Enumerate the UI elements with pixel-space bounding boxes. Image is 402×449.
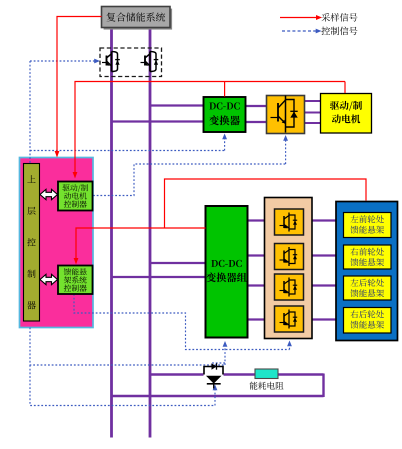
suspension unit box 1 <box>344 213 392 238</box>
storage switch enclosure (dashed box) <box>100 48 162 77</box>
sampling line: row1 converter & motor to motor controller (red) <box>75 82 345 173</box>
wire: brake chopper top rail <box>150 373 204 375</box>
wire: right bus to DC-DC converter (row1 upper) <box>150 104 204 106</box>
wire: right DC bus (vertical) <box>149 28 152 438</box>
IGBT module M3 <box>275 274 304 300</box>
label: 左后轮处 suspension line1 <box>351 279 384 287</box>
DC-DC converter group box (row 2) <box>206 206 248 338</box>
wire: DC-DC converter group to IGBT module group (4 links) <box>248 219 265 221</box>
wire: DC-DC converter to IGBT module U1 (2 links) <box>246 105 267 107</box>
IGBT switch Q1 (left storage branch) <box>102 52 120 72</box>
regen suspension system controller box <box>58 266 93 295</box>
bidirectional link: upper controller to suspension controller <box>40 274 58 284</box>
dump resistor box (cyan) <box>255 369 278 379</box>
sampling tap: DC-DC converter row1 top <box>224 82 226 97</box>
legend: control signal (blue dashed arrow) <box>282 30 316 32</box>
label: 右前轮处 suspension line1 <box>351 248 384 256</box>
control line: upper controller to brake chopper gate (dashed, arrow up) <box>30 365 215 406</box>
wire: dump loop right side <box>322 374 324 398</box>
suspension container box (blue) <box>336 202 398 341</box>
control line: upper controller trunk vertical <box>29 61 31 164</box>
wire: right bus to DC-DC converter group (upper) <box>150 262 206 264</box>
label: drive/brake motor <box>330 101 362 111</box>
sampling tap: drive/brake motor top <box>344 82 346 94</box>
suspension unit box 4 <box>344 308 392 334</box>
suspension unit box 3 <box>344 276 392 300</box>
control line: to DC-DC converter row1 (dashed, arrow up) <box>30 139 225 151</box>
IGBT module M2 <box>275 244 304 270</box>
control line: upper controller to DC-DC converter group (dashed, arrow up) <box>30 328 225 366</box>
label: 右后轮处 suspension line1 <box>351 310 384 318</box>
wire: IGBT module group to suspension container (4 links) <box>312 219 336 221</box>
IGBT module M4 <box>275 306 304 332</box>
legend: sampling signal (red arrow) <box>280 17 317 19</box>
wire: left bus to DC-DC converter (row1 lower) <box>112 120 204 122</box>
suspension unit box 2 <box>344 245 392 269</box>
label: 左前轮处 suspension line1 <box>351 215 384 223</box>
label: drive/brake motor controller <box>62 184 87 192</box>
label: upper layer controller (vertical) <box>27 175 36 309</box>
label: DC-DC converter group line1 <box>211 260 241 267</box>
composite energy storage system box <box>102 7 173 30</box>
control line: upper controller to storage IGBT switches (dashed, arrow) <box>30 60 95 62</box>
label: composite energy storage system <box>107 12 166 21</box>
IGBT module group enclosure (tan) <box>265 198 313 339</box>
upper-layer controller enclosure (pink box) <box>20 158 94 328</box>
drive/brake motor box <box>321 94 372 134</box>
control line: motor controller to IGBT module U1 (dashed, arrow up) <box>93 141 286 196</box>
label: regen suspension system controller <box>64 268 87 275</box>
wire: IGBT module U1 to drive/brake motor (3 phase links) <box>305 100 321 102</box>
sampling line: suspension container & converter group to suspension controller (red) <box>165 179 367 228</box>
IGBT module M1 <box>275 209 304 235</box>
label: dump resistor <box>250 382 284 390</box>
DC-DC converter box (row 1) <box>204 97 246 132</box>
wire: dump resistor bottom rail <box>112 395 324 397</box>
label: DC-DC converter line1 <box>209 102 239 109</box>
wire: left DC bus (vertical) <box>110 28 113 438</box>
control line: suspension controller to IGBT module group (dashed, arrow up) <box>74 294 290 350</box>
IGBT switch Q2 (right storage branch) <box>141 52 159 72</box>
IGBT power module U1 symbol <box>271 96 298 133</box>
IGBT power module U1 box <box>267 96 305 134</box>
control line: branch to brake chopper top <box>212 362 225 364</box>
bidirectional link: upper controller to motor controller <box>40 189 58 199</box>
sampling line: storage system to upper controller (red, arrow down) <box>57 17 102 153</box>
brake chopper switch D1/Q5 <box>204 363 223 388</box>
drive/brake motor controller box <box>58 182 93 211</box>
upper-layer controller bar (olive) <box>24 164 40 322</box>
wire: left bus to DC-DC converter group (lower) <box>112 276 206 278</box>
